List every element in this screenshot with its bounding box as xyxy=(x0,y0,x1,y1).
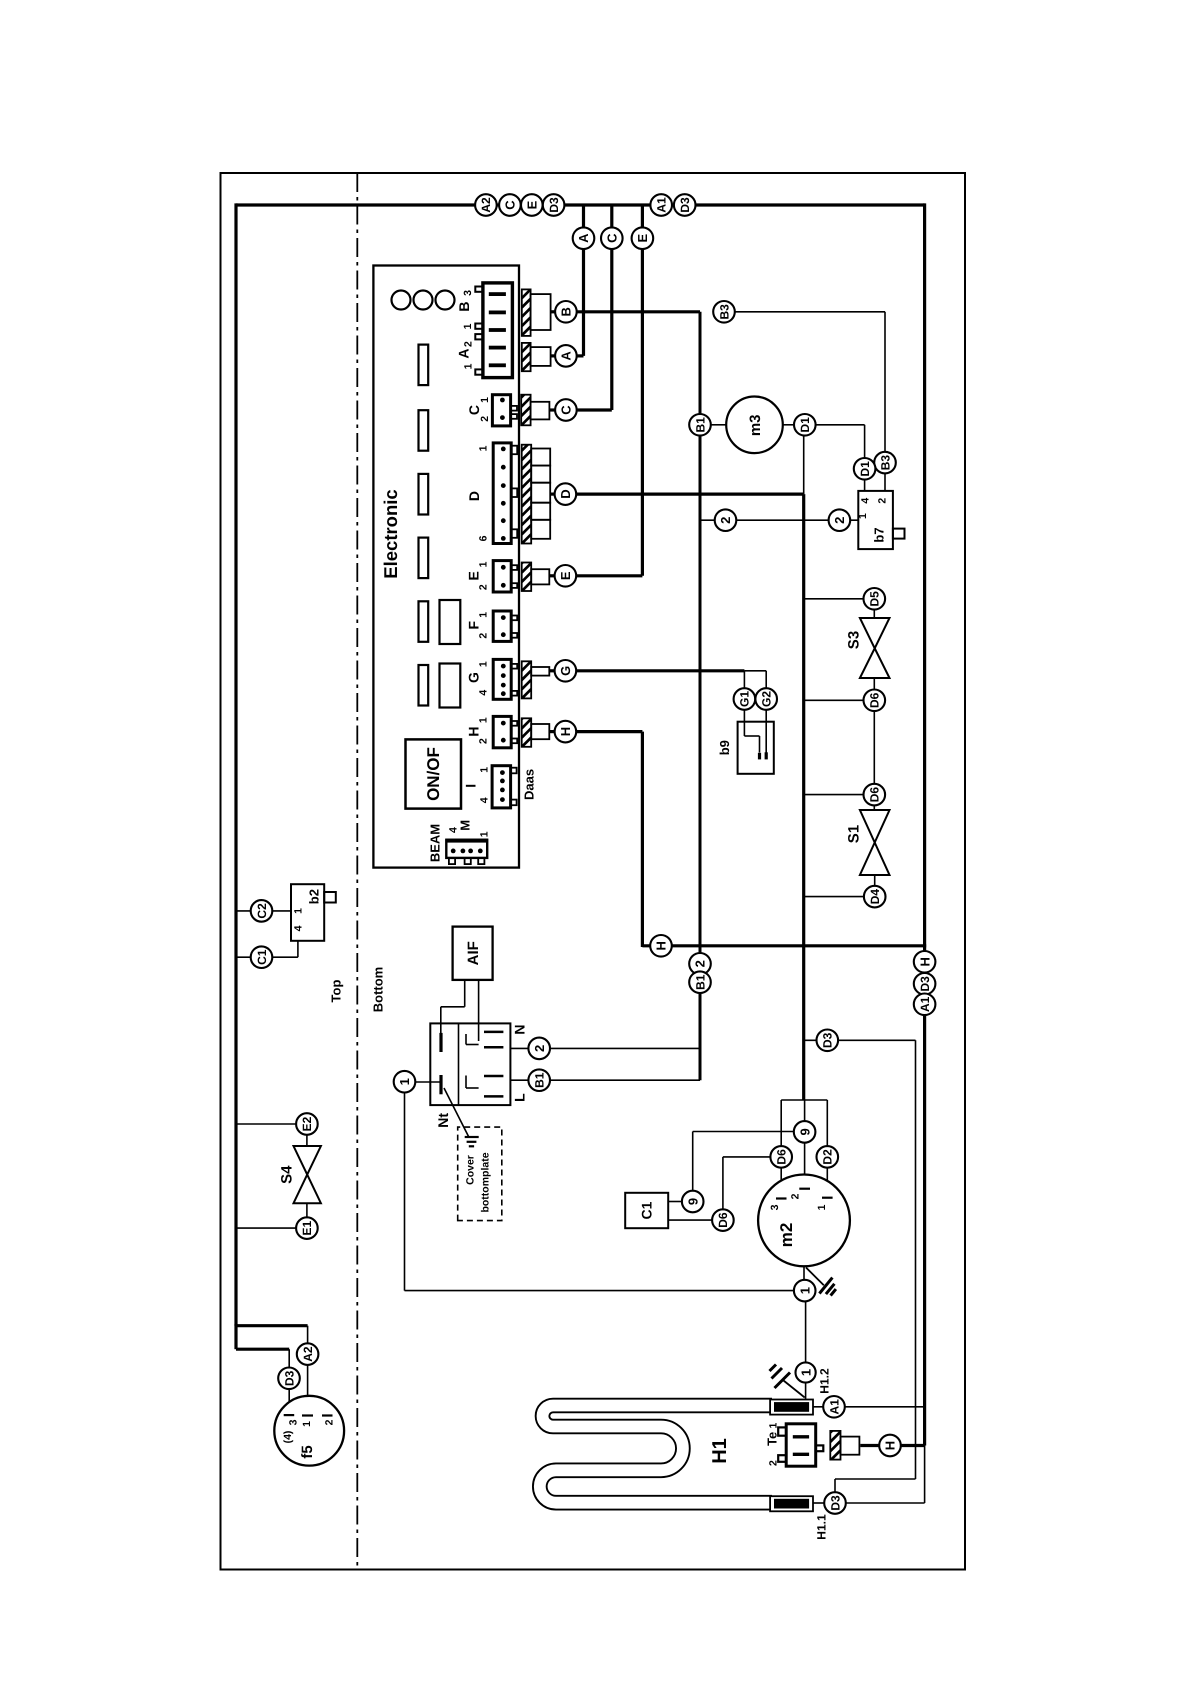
board relay bar 1 xyxy=(419,345,429,386)
node A on drop xyxy=(573,227,595,249)
wire drop G1 xyxy=(743,671,745,689)
svg-text:1: 1 xyxy=(478,612,490,618)
wire H to lower bus xyxy=(576,732,642,947)
temperature sensor Te xyxy=(764,1423,823,1467)
connector E hatched contact xyxy=(522,545,550,601)
ON/OF switch block xyxy=(406,739,462,808)
svg-text:D3: D3 xyxy=(678,197,692,213)
svg-text:H: H xyxy=(883,1441,898,1450)
svg-text:E2: E2 xyxy=(300,1116,314,1131)
svg-text:D2: D2 xyxy=(821,1149,835,1165)
svg-text:A1: A1 xyxy=(827,1399,841,1415)
svg-text:G: G xyxy=(558,666,573,676)
node D4 xyxy=(864,886,886,908)
connector C hatched contact xyxy=(521,379,549,435)
svg-text:1: 1 xyxy=(797,1287,812,1294)
svg-text:C2: C2 xyxy=(255,903,269,919)
svg-text:L: L xyxy=(512,1093,528,1102)
svg-text:I: I xyxy=(463,784,479,788)
connector D hatched contact xyxy=(522,432,551,553)
node D3 at f5 xyxy=(278,1368,300,1390)
wire A1 from heater xyxy=(813,1406,925,1408)
svg-text:D3: D3 xyxy=(282,1370,296,1386)
svg-text:E1: E1 xyxy=(300,1220,314,1235)
svg-text:1: 1 xyxy=(397,1078,412,1085)
level sensor b9 xyxy=(717,710,774,774)
svg-text:G: G xyxy=(465,672,481,683)
valve S4 xyxy=(278,1135,321,1218)
svg-text:C1: C1 xyxy=(639,1201,655,1219)
node H at Te xyxy=(879,1435,901,1457)
node G at connector xyxy=(555,660,577,682)
svg-text:ON/OF: ON/OF xyxy=(424,747,443,801)
wire tap to D4 xyxy=(804,896,864,898)
svg-text:AIF: AIF xyxy=(465,941,482,965)
node B3 at b7 xyxy=(874,452,896,474)
interference filter b7 xyxy=(857,491,904,549)
node D3 on bus xyxy=(543,194,565,216)
svg-text:Te: Te xyxy=(764,1432,779,1446)
svg-text:m2: m2 xyxy=(777,1223,796,1248)
connector H hatched contact xyxy=(522,700,550,756)
svg-text:S1: S1 xyxy=(845,825,862,843)
svg-text:bottomplate: bottomplate xyxy=(479,1152,491,1212)
svg-text:1: 1 xyxy=(478,717,490,723)
svg-text:2: 2 xyxy=(478,738,490,744)
board relay box 6 xyxy=(440,664,461,708)
node D3 near m2 xyxy=(817,1030,839,1052)
wire 9 up to m2 xyxy=(693,1132,794,1191)
svg-text:C: C xyxy=(503,200,518,210)
wire stub A xyxy=(551,354,556,357)
wire G to b9 xyxy=(576,669,766,672)
svg-text:1: 1 xyxy=(478,445,490,451)
wire stub H xyxy=(549,730,556,733)
svg-text:b7: b7 xyxy=(871,527,886,542)
power entry terminal Nt xyxy=(430,1023,527,1127)
svg-text:1: 1 xyxy=(816,1204,828,1210)
node 1 below m2 xyxy=(794,1280,816,1302)
wire AIF left to Nt xyxy=(441,980,465,1033)
svg-text:4: 4 xyxy=(479,797,491,803)
svg-text:S3: S3 xyxy=(845,631,862,649)
node D3 on right bus xyxy=(914,973,936,995)
svg-text:C: C xyxy=(466,405,482,415)
wire H to Te xyxy=(860,1444,924,1447)
svg-text:A: A xyxy=(456,348,472,358)
wire stub D xyxy=(550,492,556,495)
wire tap to D5 xyxy=(804,598,864,600)
Te hatched contact xyxy=(830,1413,859,1470)
svg-text:D3: D3 xyxy=(828,1495,842,1511)
wire tap to D6 upper xyxy=(804,699,864,701)
svg-text:D3: D3 xyxy=(821,1032,835,1048)
svg-text:B1: B1 xyxy=(693,974,707,990)
svg-text:D6: D6 xyxy=(716,1212,730,1228)
node C1 xyxy=(251,946,273,968)
thermal cutout f5 xyxy=(274,1396,344,1466)
svg-text:1: 1 xyxy=(767,1423,779,1429)
board relay bar 2 xyxy=(419,410,429,451)
wire D3 branch to f5 xyxy=(236,1324,289,1415)
svg-text:Top: Top xyxy=(329,980,344,1003)
m2 chassis ground xyxy=(806,1268,836,1296)
wire main supply bus top xyxy=(236,203,925,206)
wire D3 down to H1.1 xyxy=(846,1446,925,1504)
svg-text:A: A xyxy=(576,233,591,243)
svg-text:1: 1 xyxy=(478,561,490,567)
wire D1 to b7 xyxy=(816,425,865,458)
node D2 above m2 xyxy=(817,1146,839,1168)
svg-text:b9: b9 xyxy=(717,740,732,755)
heater terminal H1.1 xyxy=(770,1496,813,1511)
wire C to drop xyxy=(577,408,612,411)
wire stub E xyxy=(549,574,556,577)
svg-text:2: 2 xyxy=(462,341,474,347)
svg-text:1: 1 xyxy=(301,1421,313,1427)
wire D distribution vertical xyxy=(802,494,805,1100)
node E2 xyxy=(296,1113,318,1135)
wire drop C from bus xyxy=(610,205,613,410)
wire lower horizontal bus xyxy=(642,944,926,947)
wire stub B xyxy=(551,310,556,313)
connector B hatched contact xyxy=(522,280,551,345)
wire node 1 to H1.2 terminal xyxy=(805,1383,807,1400)
svg-text:D4: D4 xyxy=(868,889,882,905)
wire tap E1 xyxy=(236,1227,296,1229)
wire tap to D6 lower xyxy=(804,794,864,796)
node D5 xyxy=(864,588,886,610)
label H1.2 xyxy=(817,1368,831,1394)
label H1.1 xyxy=(814,1514,828,1540)
node B xyxy=(555,301,577,323)
svg-text:2: 2 xyxy=(877,498,889,504)
connector A-B block on board xyxy=(456,283,513,378)
wire B to junction xyxy=(577,310,700,313)
node A2 on bus xyxy=(475,194,497,216)
svg-text:C: C xyxy=(559,405,574,415)
svg-text:f5: f5 xyxy=(299,1445,316,1458)
wire tap E2 xyxy=(236,1123,307,1125)
valve S3 xyxy=(845,610,889,690)
svg-text:B3: B3 xyxy=(878,455,892,471)
node D6 upper xyxy=(864,690,886,712)
wire L to node B1 xyxy=(510,1079,700,1081)
board relay bar 4 xyxy=(419,538,429,579)
svg-text:B1: B1 xyxy=(693,417,707,433)
capacitor C1 box xyxy=(625,1193,668,1228)
wire N to node 2 xyxy=(510,1047,700,1049)
svg-text:A1: A1 xyxy=(918,996,932,1012)
node 2 at Nt xyxy=(528,1038,550,1060)
wire node 1 to Nt node 1 xyxy=(405,1093,795,1291)
board indicator circle 3 xyxy=(436,291,455,310)
wire D to motor fork xyxy=(781,1099,827,1101)
svg-text:2: 2 xyxy=(479,416,491,422)
node A xyxy=(555,345,577,367)
svg-text:H: H xyxy=(917,957,932,966)
node B3 on wire xyxy=(713,301,735,323)
connector D on board xyxy=(466,443,517,544)
wire stub C xyxy=(549,408,556,411)
wire drop E from bus xyxy=(641,205,644,576)
wire D1 stub to D column xyxy=(803,436,805,494)
wire drop A from bus xyxy=(582,205,585,356)
svg-text:G2: G2 xyxy=(760,691,774,707)
top/bottom divider dash-dot line xyxy=(356,173,358,1570)
board relay bar 3 xyxy=(419,474,429,515)
svg-text:Cover: Cover xyxy=(464,1155,476,1185)
svg-text:1: 1 xyxy=(478,661,490,667)
wire D2 to m2 pin1 xyxy=(826,1168,828,1198)
svg-text:E: E xyxy=(558,571,573,580)
svg-text:N: N xyxy=(512,1024,528,1034)
node C on bus xyxy=(499,194,521,216)
wire A2 branch to f5 xyxy=(236,1326,308,1416)
heater element H1 serpentine xyxy=(540,1406,772,1503)
svg-text:B: B xyxy=(559,307,574,316)
wire 9 to m2 pin2 xyxy=(804,1143,806,1189)
node 9 above m2 xyxy=(794,1121,816,1143)
svg-text:D: D xyxy=(466,491,482,501)
board relay bar 5 xyxy=(419,601,429,642)
connector I Daas on board xyxy=(463,766,537,808)
svg-text:2: 2 xyxy=(324,1419,336,1425)
svg-text:4: 4 xyxy=(859,498,871,504)
node D1 at motor m3 xyxy=(783,414,816,436)
svg-text:(4): (4) xyxy=(282,1431,294,1444)
connector F on board xyxy=(465,611,517,641)
svg-text:Bottom: Bottom xyxy=(371,967,386,1013)
svg-text:F: F xyxy=(465,620,481,629)
cover bottomplate dashed box xyxy=(458,1127,502,1221)
svg-text:D: D xyxy=(558,489,573,498)
wire left vertical bus xyxy=(234,203,237,1325)
board indicator circle 2 xyxy=(414,291,433,310)
svg-text:2: 2 xyxy=(478,633,490,639)
node D3 right on bus xyxy=(674,194,696,216)
svg-text:1: 1 xyxy=(462,323,474,329)
svg-text:H: H xyxy=(654,941,669,950)
svg-text:4: 4 xyxy=(478,690,490,696)
wire B3 to b7 xyxy=(735,312,885,491)
node A1 on right bus xyxy=(914,994,936,1016)
connector E on board xyxy=(465,561,517,592)
H1.2 chassis ground xyxy=(770,1365,805,1398)
svg-text:3: 3 xyxy=(462,290,474,296)
connector C on board xyxy=(466,395,517,426)
svg-text:2: 2 xyxy=(767,1460,779,1466)
svg-text:2: 2 xyxy=(718,517,733,524)
svg-text:B: B xyxy=(456,301,472,311)
svg-text:3: 3 xyxy=(769,1204,781,1210)
node E at connector xyxy=(555,565,577,587)
electronic control board xyxy=(373,266,519,868)
wire m2 node1 down to heater xyxy=(805,1301,807,1362)
wire b2 pin4 to C1 xyxy=(236,941,298,957)
svg-text:1: 1 xyxy=(857,513,869,519)
wire fork left leg xyxy=(780,1100,782,1146)
svg-text:2: 2 xyxy=(532,1045,547,1052)
svg-text:B3: B3 xyxy=(717,304,731,320)
wire AIF right to Nt xyxy=(478,980,480,1041)
node E on drop xyxy=(632,227,654,249)
node B1 below bus xyxy=(689,971,711,993)
node 1 at Nt xyxy=(394,1071,441,1093)
svg-text:D1: D1 xyxy=(798,417,812,433)
AIF interference filter box xyxy=(453,927,493,980)
svg-text:1: 1 xyxy=(798,1369,813,1376)
svg-text:G1: G1 xyxy=(738,691,752,707)
svg-text:E: E xyxy=(635,234,650,243)
node 9 at C1 xyxy=(668,1191,703,1213)
svg-text:A1: A1 xyxy=(655,197,669,213)
connector G on board xyxy=(465,659,517,699)
svg-text:D3: D3 xyxy=(547,197,561,213)
wire drop G2 xyxy=(765,671,767,689)
svg-text:D6: D6 xyxy=(775,1149,789,1165)
earth to cover bottomplate xyxy=(444,1088,479,1146)
svg-text:A2: A2 xyxy=(301,1346,315,1362)
node B1 at motor m3 xyxy=(689,414,711,436)
node B1 at Nt xyxy=(528,1069,550,1091)
board relay box 5 xyxy=(440,600,461,644)
node G2 xyxy=(755,688,777,710)
node D1 at b7 xyxy=(854,458,876,491)
wire D to distribution column xyxy=(576,492,804,495)
svg-text:H1.2: H1.2 xyxy=(817,1368,831,1394)
wire E to drop xyxy=(576,574,642,577)
svg-text:H1: H1 xyxy=(709,1438,731,1464)
node E on bus xyxy=(521,194,543,216)
svg-text:2: 2 xyxy=(478,584,490,590)
svg-text:D3: D3 xyxy=(918,976,932,992)
wire tap C2 xyxy=(236,910,291,912)
svg-text:B1: B1 xyxy=(533,1072,547,1088)
svg-text:A: A xyxy=(559,351,574,361)
svg-text:M: M xyxy=(458,820,473,831)
node H on lower bus xyxy=(650,935,672,957)
svg-text:6: 6 xyxy=(478,535,490,541)
node G1 xyxy=(734,688,756,710)
wire right vertical bus xyxy=(923,203,926,1445)
svg-text:2: 2 xyxy=(693,960,708,967)
wire D6 to m2 pin3 xyxy=(780,1168,782,1199)
svg-text:H1.1: H1.1 xyxy=(814,1514,828,1540)
thermostat b2 xyxy=(291,884,336,941)
svg-text:E: E xyxy=(465,571,481,580)
heater terminal H1.2 xyxy=(770,1400,813,1415)
svg-text:1: 1 xyxy=(479,831,491,837)
svg-text:1: 1 xyxy=(479,767,491,773)
wire tap D3 at D column xyxy=(804,1039,916,1041)
svg-text:1: 1 xyxy=(479,397,491,403)
wire fork right leg xyxy=(826,1100,828,1146)
connector H on board xyxy=(465,716,517,747)
svg-text:D5: D5 xyxy=(868,591,882,607)
svg-text:Electronic: Electronic xyxy=(380,489,401,578)
wire m2 to node 1 xyxy=(803,1266,805,1280)
node 2 below bus xyxy=(689,953,711,975)
motor m3 xyxy=(711,397,783,454)
label Bottom xyxy=(371,967,386,1013)
node D3 at H1.1 xyxy=(824,1492,846,1514)
board indicator circle 1 xyxy=(392,291,411,310)
svg-text:C: C xyxy=(605,233,620,243)
svg-text:1: 1 xyxy=(462,363,474,369)
wire D3 down right side xyxy=(835,1040,916,1492)
svg-text:BEAM: BEAM xyxy=(428,824,443,862)
svg-text:2: 2 xyxy=(832,517,847,524)
motor m2 xyxy=(758,1175,850,1267)
wire fork center leg xyxy=(804,1100,806,1121)
svg-text:4: 4 xyxy=(293,925,305,931)
wire net 2 to b7 xyxy=(700,519,858,521)
connector M BEAM on board xyxy=(428,820,491,864)
connector G hatched contact xyxy=(522,643,550,708)
svg-text:C1: C1 xyxy=(255,949,269,965)
svg-text:E: E xyxy=(525,200,540,209)
svg-text:Daas: Daas xyxy=(522,769,537,800)
node D6 lower xyxy=(864,784,886,806)
border frame xyxy=(221,173,966,1570)
node 2 right xyxy=(829,509,851,531)
node 2 left xyxy=(715,509,737,531)
node H at connector xyxy=(555,721,577,743)
wire H1.1 terminal to D3 xyxy=(813,1502,824,1504)
wire A to drop xyxy=(577,354,584,357)
node D6 at C1 xyxy=(668,1209,734,1231)
svg-text:D6: D6 xyxy=(868,787,882,803)
svg-text:Nt: Nt xyxy=(435,1113,451,1128)
board relay bar 6 xyxy=(419,665,429,706)
wire D6 up to m2 leg xyxy=(723,1157,771,1210)
svg-text:m3: m3 xyxy=(747,414,764,436)
valve S1 xyxy=(845,805,889,886)
svg-text:H: H xyxy=(558,727,573,736)
svg-text:9: 9 xyxy=(685,1198,700,1205)
svg-text:2: 2 xyxy=(789,1193,801,1199)
svg-text:D1: D1 xyxy=(858,461,872,477)
node E1 xyxy=(296,1217,318,1239)
svg-text:9: 9 xyxy=(797,1128,812,1135)
svg-text:S4: S4 xyxy=(278,1165,295,1184)
svg-text:A2: A2 xyxy=(479,197,493,213)
svg-text:D6: D6 xyxy=(868,692,882,708)
label Top xyxy=(329,980,344,1003)
connector A hatched contact xyxy=(522,334,551,380)
node C2 xyxy=(251,900,273,922)
wire stub G xyxy=(549,669,556,672)
wire harness B1/2 vertical xyxy=(699,312,702,1080)
node H on right bus xyxy=(914,951,936,973)
wire D6 to D6 xyxy=(873,711,875,784)
node C on drop xyxy=(601,227,623,249)
node D6 above m2 xyxy=(770,1146,792,1168)
svg-text:b2: b2 xyxy=(306,889,321,904)
node 1 at heater H1.2 xyxy=(796,1362,816,1382)
node A2 at f5 xyxy=(297,1343,319,1365)
node A1 on bus xyxy=(650,194,672,216)
node D at connector xyxy=(555,483,577,505)
svg-text:1: 1 xyxy=(293,908,305,914)
svg-text:3: 3 xyxy=(287,1419,299,1425)
node A1 at heater xyxy=(823,1396,845,1418)
node C at connector xyxy=(555,399,577,421)
svg-text:H: H xyxy=(465,727,481,737)
